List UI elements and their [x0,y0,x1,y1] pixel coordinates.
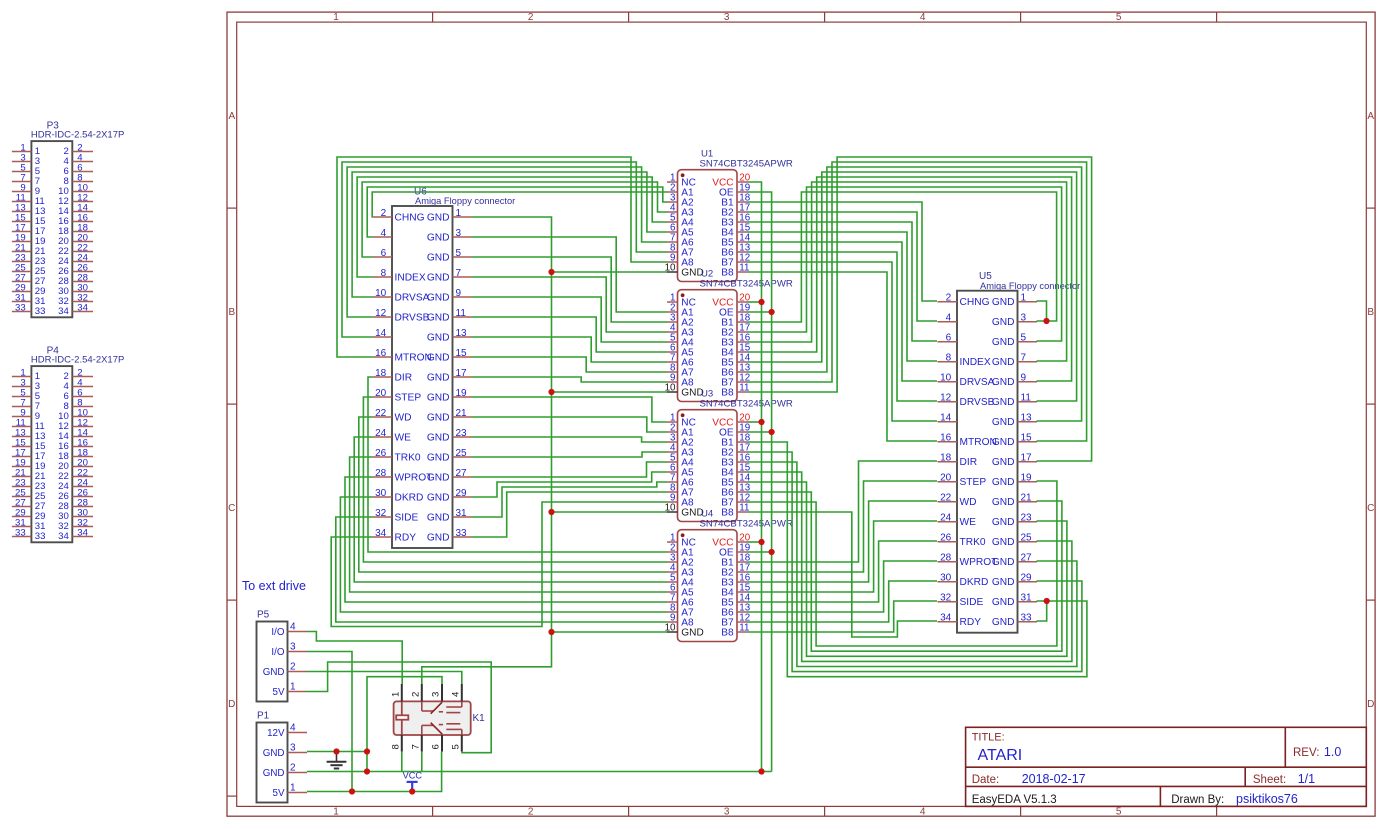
svg-text:DRVSA: DRVSA [960,377,995,388]
svg-text:1: 1 [390,692,401,697]
junction VCC bus / U2.20 [758,299,764,305]
svg-text:33: 33 [35,306,46,317]
svg-text:32: 32 [375,508,387,519]
svg-text:GND: GND [427,392,450,403]
wire U2.B6 to U5.13 [748,167,1082,421]
junction K1.3 / P1.3 [364,748,370,754]
wire OE bus U1.19 down to GND rail [748,192,772,772]
wire K1.8 to GND rail [401,752,403,772]
wire U6.29 to U3.A5 [472,472,667,497]
svg-text:DIR: DIR [395,372,413,383]
svg-text:5V: 5V [273,687,285,698]
wire U2.B8 to U5.17 [748,157,1092,461]
svg-text:Amiga Floppy connector: Amiga Floppy connector [980,281,1080,291]
svg-text:TRK0: TRK0 [395,452,421,463]
svg-text:SIDE: SIDE [395,512,419,523]
svg-text:7: 7 [1021,353,1027,364]
svg-text:GND: GND [427,532,450,543]
svg-text:CHNG: CHNG [395,212,425,223]
svg-text:GND: GND [992,357,1015,368]
svg-text:10: 10 [375,288,387,299]
svg-text:B8: B8 [721,388,734,399]
wire P5.2 to K1.4 [307,672,462,685]
connector U5 Amiga Floppy connector [938,271,1081,633]
wire U6.17 to U2.A8 [472,377,667,382]
svg-text:1: 1 [290,782,296,793]
ground symbol [327,752,347,769]
svg-text:D: D [1367,699,1374,710]
svg-text:5: 5 [1116,12,1122,23]
svg-text:3: 3 [1021,313,1027,324]
wire U4.B7 to U5.30 [748,581,938,622]
svg-text:9: 9 [1021,373,1027,384]
svg-text:34: 34 [77,527,88,538]
svg-text:15: 15 [1021,433,1033,444]
svg-text:DKRD: DKRD [395,492,424,503]
wire VCC branch U4.20 [748,541,762,543]
connector P4 HDR-IDC-2.54-2X17P [12,346,124,543]
svg-text:GND: GND [263,667,285,678]
svg-text:6: 6 [946,333,952,344]
svg-text:DRVSA: DRVSA [395,292,430,303]
wire GND branch to U3.10 [552,511,668,513]
svg-text:4: 4 [920,12,926,23]
svg-text:25: 25 [456,448,468,459]
svg-text:2: 2 [290,661,296,672]
svg-text:GND: GND [427,232,450,243]
wire U5.33 to U5.31 loop [1037,601,1047,621]
wire U6.33 to U3.A7 [472,492,667,537]
svg-text:21: 21 [456,408,468,419]
svg-text:DKRD: DKRD [960,577,989,588]
svg-text:GND: GND [992,417,1015,428]
wire U3.B5 to U5.23 [748,482,1067,656]
svg-text:GND: GND [992,617,1015,628]
svg-text:30: 30 [940,573,952,584]
svg-text:GND: GND [427,352,450,363]
junction VCC bus / U4.20 [758,539,764,545]
svg-text:1: 1 [333,807,339,818]
svg-text:19: 19 [1021,473,1033,484]
svg-text:Sheet:: Sheet: [1253,774,1286,786]
svg-text:12: 12 [940,393,952,404]
svg-text:3: 3 [431,692,442,697]
wire U6.30 to U4.A7 [340,497,667,612]
junction OE bus / U4.19 [769,549,775,555]
svg-text:WD: WD [395,412,412,423]
svg-text:B: B [228,307,235,318]
connector U6 Amiga Floppy connector [373,187,516,549]
svg-text:GND: GND [427,212,450,223]
svg-text:GND: GND [427,492,450,503]
svg-text:34: 34 [58,531,69,542]
svg-text:SN74CBT3245APWR: SN74CBT3245APWR [700,518,793,529]
svg-text:GND: GND [427,312,450,323]
wire U2.B5 to U5.11 [748,172,1077,401]
wire U3.B2 to U5.29 [748,452,1082,672]
wire U1.B6 to U5.12 [748,252,938,401]
svg-text:2: 2 [290,762,296,773]
wire U1.B7 to U5.14 [748,262,938,421]
wire U6.21 to U3.A1 [472,417,667,432]
svg-text:33: 33 [15,302,26,313]
wire U4.B6 to U5.28 [748,561,938,612]
wire P1.3 GND to ground symbol [307,751,367,753]
svg-text:GND: GND [992,397,1015,408]
svg-text:ATARI: ATARI [978,747,1023,764]
svg-text:29: 29 [456,488,468,499]
svg-text:8: 8 [381,268,387,279]
svg-text:8: 8 [390,744,401,749]
junction U5.1-U5.3 [1043,318,1049,324]
svg-text:GND: GND [992,597,1015,608]
svg-text:4: 4 [290,621,296,632]
svg-text:2: 2 [410,692,421,697]
wire GND branch to U2.10 [552,391,668,393]
svg-text:34: 34 [940,613,952,624]
wire U3.B4 to U5.25 [748,472,1072,661]
wire GND bus U6.1 down to K1.2 [422,217,552,684]
svg-text:21: 21 [1021,493,1033,504]
svg-text:29: 29 [1021,573,1033,584]
svg-text:B: B [1367,307,1374,318]
wire U4.B3 to U5.22 [748,501,938,582]
wire U6.24 to U4.A4 [354,437,667,582]
svg-text:GND: GND [427,452,450,463]
junction GND bus / U3.10 [548,509,554,515]
svg-text:5V: 5V [273,788,285,799]
svg-text:I/O: I/O [271,627,284,638]
svg-text:DRVSB: DRVSB [395,312,430,323]
svg-text:INDEX: INDEX [960,357,991,368]
wire U6.20 to U4.A2 [363,397,667,562]
svg-text:A: A [1367,111,1374,122]
wire VCC branch U3.20 [748,421,762,423]
svg-text:5: 5 [1021,333,1027,344]
wire U6.26 to U4.A5 [350,457,667,592]
wire K1.6 to VCC node [412,752,441,792]
svg-text:33: 33 [1021,613,1033,624]
svg-text:B8: B8 [721,268,734,279]
svg-text:REV:: REV: [1293,747,1319,759]
svg-text:16: 16 [375,348,387,359]
IC U4 SN74CBT3245APWR [665,509,793,642]
svg-text:GND: GND [427,512,450,523]
svg-text:GND: GND [263,768,285,779]
svg-text:Date:: Date: [972,774,1000,786]
svg-text:9: 9 [456,288,462,299]
svg-text:GND: GND [992,337,1015,348]
svg-text:GND: GND [992,557,1015,568]
svg-text:11: 11 [456,308,467,319]
IC U2 SN74CBT3245APWR [665,269,793,402]
wire U6.11 to U2.A5 [472,317,667,352]
junction ground symbol tap [333,748,339,754]
svg-text:3: 3 [724,807,730,818]
svg-text:26: 26 [375,448,387,459]
svg-text:2: 2 [946,293,952,304]
svg-text:26: 26 [940,533,952,544]
svg-text:4: 4 [290,722,296,733]
svg-text:13: 13 [1021,413,1033,424]
wire U6.32 to U4.A8 [336,517,667,622]
svg-text:33: 33 [456,528,468,539]
power symbol VCC [403,771,423,792]
svg-text:K1: K1 [473,713,486,724]
svg-text:6: 6 [431,744,442,749]
wire VCC bus U1.20 down [748,182,762,772]
svg-text:GND: GND [992,457,1015,468]
wire U6.25 to U3.A3 [472,452,667,457]
connector P1 [257,710,308,802]
svg-text:24: 24 [940,513,952,524]
wire U6.2 to U1.A1 [372,192,667,217]
svg-text:DRVSB: DRVSB [960,397,995,408]
wire U6.28 to U4.A6 [345,477,667,602]
wire U1.B8 to U5.16 [748,272,938,441]
wire U5.1 to U5.3 loop [1037,301,1047,321]
wire U6.34 to U3.A8 detour [331,502,667,627]
junction VCC symbol node [409,788,415,794]
wire P5.4 to K1.1 [307,632,402,685]
svg-text:32: 32 [940,593,952,604]
junction GND bus / U4.10 [548,629,554,635]
svg-text:2: 2 [381,208,387,219]
svg-text:GND: GND [992,477,1015,488]
wire U1.B3 to U5.6 [748,222,938,341]
wire U3.B8 to U5.34 [748,512,938,637]
svg-text:22: 22 [375,408,387,419]
wire K1.3 to GND rail [367,677,442,772]
svg-text:INDEX: INDEX [395,272,426,283]
svg-text:12: 12 [375,308,387,319]
svg-text:1/1: 1/1 [1298,772,1315,786]
wire U6.23 to U3.A2 [472,437,667,442]
wire U6.4 to U1.A2 [367,187,667,237]
svg-text:11: 11 [1021,393,1032,404]
svg-text:Drawn By:: Drawn By: [1171,794,1224,806]
wire U6.8 to U1.A4 [357,177,667,277]
svg-text:24: 24 [375,428,387,439]
svg-text:27: 27 [1021,553,1033,564]
svg-text:10: 10 [940,373,952,384]
wire GND branch to U4.10 [552,631,668,633]
junction GND bus / U2.10 [548,389,554,395]
wire P5.1 5V to K1.5 [307,662,491,753]
svg-text:P5: P5 [257,609,270,620]
svg-text:RDY: RDY [960,617,982,628]
svg-text:14: 14 [375,328,387,339]
svg-text:STEP: STEP [395,392,422,403]
wire U6.9 to U2.A4 [472,297,667,342]
svg-text:31: 31 [456,508,468,519]
svg-text:WE: WE [395,432,412,443]
svg-text:STEP: STEP [960,477,987,488]
svg-text:To ext drive: To ext drive [242,579,306,593]
svg-text:GND: GND [427,272,450,283]
svg-text:1: 1 [1021,293,1027,304]
IC U3 SN74CBT3245APWR [665,389,793,522]
svg-text:1: 1 [333,12,339,23]
svg-text:18: 18 [940,453,952,464]
svg-text:23: 23 [1021,513,1033,524]
wire U1.B4 to U5.8 [748,232,938,361]
svg-text:34: 34 [58,306,69,317]
svg-text:33: 33 [15,527,26,538]
wire OE branch U4.19 [748,551,772,553]
svg-text:GND: GND [992,437,1015,448]
junction VCC bus / U3.20 [758,419,764,425]
svg-text:7: 7 [456,268,462,279]
svg-text:34: 34 [77,302,88,313]
wire U6.6 to U1.A3 [362,182,667,257]
junction U5.31-U5.33 [1044,598,1050,604]
wire U4.B8 to U5.32 [748,601,938,632]
svg-text:GND: GND [992,517,1015,528]
svg-text:16: 16 [940,433,952,444]
svg-text:HDR-IDC-2.54-2X17P: HDR-IDC-2.54-2X17P [31,355,124,366]
wire U2.B4 to U5.9 [748,177,1072,381]
relay K1 [390,684,485,752]
svg-text:28: 28 [375,468,387,479]
svg-text:GND: GND [992,497,1015,508]
wire U2.B2 to U5.5 [748,187,1062,341]
svg-text:3: 3 [290,742,296,753]
svg-text:GND: GND [992,577,1015,588]
wire U1.B1 to U5.2 [748,202,938,301]
wire OE branch U3.19 [748,431,772,433]
wire U4.B2 to U5.20 [748,481,938,572]
svg-text:3: 3 [724,12,730,23]
junction P5.3 / 5V rail [349,788,355,794]
connector P3 HDR-IDC-2.54-2X17P [12,121,124,318]
IC U1 SN74CBT3245APWR [665,149,793,282]
junction OE bus / U2.19 [769,309,775,315]
svg-text:GND: GND [992,297,1015,308]
svg-text:D: D [228,699,235,710]
svg-text:SN74CBT3245APWR: SN74CBT3245APWR [700,398,793,409]
svg-text:20: 20 [375,388,387,399]
wire OE branch U2.19 [748,311,772,313]
svg-text:HDR-IDC-2.54-2X17P: HDR-IDC-2.54-2X17P [31,130,124,141]
svg-text:TRK0: TRK0 [960,537,986,548]
svg-text:6: 6 [381,248,387,259]
svg-text:18: 18 [375,368,387,379]
junction K1.3 / GND rail [364,768,370,774]
wire U2.B3 to U5.7 [748,182,1067,361]
wire U4.B5 to U5.26 [748,541,938,602]
svg-text:4: 4 [946,313,952,324]
title block [966,727,1367,806]
svg-text:20: 20 [940,473,952,484]
svg-text:C: C [228,503,235,514]
svg-text:CHNG: CHNG [960,297,990,308]
svg-text:GND: GND [427,292,450,303]
wire U6.31 to U3.A6 [472,482,667,517]
wire U3.B1 to U5.31 [748,442,1087,677]
svg-text:2018-02-17: 2018-02-17 [1022,772,1086,786]
svg-text:B8: B8 [721,628,734,639]
connector P5 [257,609,308,701]
wire U2.B1 to U5.3 [748,192,1057,322]
wire P5.3 down to 5V rail [307,652,352,792]
svg-text:28: 28 [940,553,952,564]
svg-text:C: C [1367,503,1374,514]
wire P1.1 5V rail to VCC [307,791,412,793]
svg-text:I/O: I/O [271,647,284,658]
svg-text:WE: WE [960,517,977,528]
svg-text:17: 17 [456,368,468,379]
svg-text:WD: WD [960,497,977,508]
svg-text:30: 30 [375,488,387,499]
wire U6.22 to U4.A3 [359,417,667,572]
wire U6.19 to U3.1 [472,397,667,422]
svg-text:22: 22 [940,493,952,504]
wire U6.18 to U4.A1 [368,377,667,552]
wire U1.B2 to U5.4 [748,212,938,321]
svg-text:12V: 12V [267,728,285,739]
wire U6.27 to U3.A4 [472,462,667,477]
svg-text:7: 7 [410,744,421,749]
svg-text:B8: B8 [721,508,734,519]
svg-text:RDY: RDY [395,532,417,543]
junction GND bus / U1.10 [548,269,554,275]
svg-text:5: 5 [450,744,461,749]
svg-text:31: 31 [1021,593,1033,604]
wire U6.14 to U1.A7 [342,162,667,337]
svg-text:19: 19 [456,388,468,399]
wire U4.B1 to U5.18 [748,461,938,562]
svg-text:EasyEDA V5.1.3: EasyEDA V5.1.3 [972,794,1057,806]
svg-text:13: 13 [456,328,468,339]
wire K1.7 to GND rail [421,752,423,772]
svg-text:3: 3 [456,228,462,239]
svg-text:14: 14 [940,413,952,424]
wire P1.2 GND rail [307,771,772,773]
wire U6.15 to U2.A7 [472,357,667,372]
wire U3.B7 to U5.19 [748,481,1057,646]
svg-text:P1: P1 [257,710,270,721]
wire U3.B6 to U5.21 [748,492,1062,651]
svg-text:Amiga Floppy connector: Amiga Floppy connector [415,196,515,206]
svg-text:GND: GND [992,537,1015,548]
svg-text:1: 1 [456,208,462,219]
svg-text:GND: GND [427,472,450,483]
svg-text:GND: GND [992,377,1015,388]
svg-text:1: 1 [290,681,296,692]
svg-text:GND: GND [427,372,450,383]
svg-text:DIR: DIR [960,457,978,468]
svg-text:17: 17 [1021,453,1033,464]
wire U6.12 to U1.A6 [347,167,667,317]
svg-text:2: 2 [528,12,534,23]
wire U6.3 to U2.A1 [472,237,667,312]
wire VCC branch U2.20 [748,301,762,303]
wire U3.B3 to U5.27 [748,462,1077,667]
wire U6.5 to U2.A2 [472,257,667,322]
svg-text:34: 34 [375,528,387,539]
svg-text:33: 33 [35,531,46,542]
svg-text:GND: GND [992,317,1015,328]
svg-text:SIDE: SIDE [960,597,984,608]
svg-text:25: 25 [1021,533,1033,544]
svg-text:TITLE:: TITLE: [972,731,1005,743]
svg-text:A: A [228,111,235,122]
wire GND branch to U1.10 [552,271,668,273]
svg-text:2: 2 [528,807,534,818]
junction OE bus / U3.19 [769,429,775,435]
wire U6.13 to U2.A6 [472,337,667,362]
